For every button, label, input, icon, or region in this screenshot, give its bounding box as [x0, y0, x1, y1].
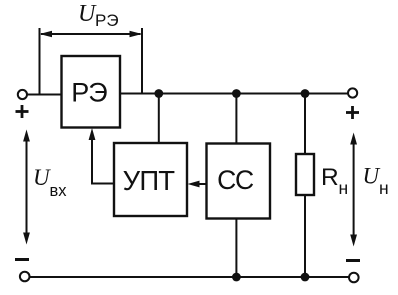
- block УПТ: [114, 143, 187, 216]
- wire УПТ to РЭ control with up arrow: [89, 128, 114, 184]
- node at R_Н tap: [301, 89, 310, 98]
- label U_н: [363, 164, 389, 199]
- svg-text:СС: СС: [217, 165, 254, 195]
- svg-text:U: U: [33, 165, 51, 190]
- svg-text:РЭ: РЭ: [71, 78, 107, 108]
- minus sign input: [15, 258, 29, 261]
- wire down to УПТ: [158, 94, 160, 144]
- block РЭ: [62, 56, 121, 128]
- label U_РЭ: [78, 1, 119, 30]
- bottom rail wire: [30, 276, 349, 278]
- terminal top-right: [348, 88, 357, 97]
- wire down to СС: [235, 94, 237, 144]
- label U_вх: [33, 165, 67, 200]
- svg-text:вх: вх: [50, 182, 68, 200]
- dimension line U_РЭ with arrows: [40, 28, 143, 94]
- node R_Н bottom: [301, 273, 310, 282]
- terminal bottom-right: [349, 273, 359, 283]
- wire РЭ to output terminal: [120, 93, 348, 95]
- wire down to R_Н: [304, 94, 306, 155]
- block СС: [207, 144, 271, 219]
- svg-text:н: н: [379, 178, 389, 198]
- svg-text:U: U: [363, 164, 381, 189]
- terminal top-left: [18, 90, 27, 99]
- plus sign input: [16, 105, 29, 118]
- arrow СС to УПТ: [188, 181, 207, 188]
- svg-text:РЭ: РЭ: [95, 11, 119, 30]
- arrow U_вх (double headed): [23, 130, 30, 245]
- wire СС to bottom rail: [235, 219, 237, 278]
- node at УПТ tap: [154, 89, 163, 98]
- arrow U_н (double headed): [350, 133, 357, 247]
- resistor R_Н: [296, 154, 348, 198]
- svg-text:УПТ: УПТ: [123, 165, 176, 196]
- plus sign output: [346, 106, 359, 119]
- node at СС tap: [232, 89, 241, 98]
- svg-text:н: н: [339, 178, 349, 198]
- terminal bottom-left: [20, 272, 30, 282]
- minus sign output: [346, 259, 360, 262]
- wire input to РЭ: [27, 94, 61, 96]
- node СС bottom: [232, 273, 241, 282]
- svg-text:R: R: [321, 164, 339, 191]
- wire R_Н to bottom rail: [304, 195, 306, 277]
